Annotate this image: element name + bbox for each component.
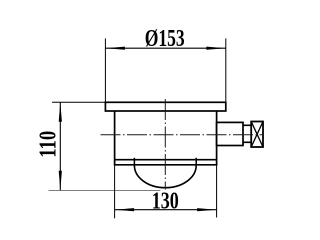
lens edge tick right xyxy=(195,158,197,166)
lens edge tick left xyxy=(133,158,135,166)
centerline horizontal axis xyxy=(101,134,264,136)
body bottom line xyxy=(114,164,218,166)
gland body box xyxy=(217,122,243,145)
gland nut box xyxy=(251,122,263,148)
dim 153 arrow left xyxy=(105,47,125,50)
dim 130 extension line left xyxy=(114,165,116,218)
body right wall xyxy=(216,111,218,165)
dim 110 arrow top xyxy=(59,102,62,122)
dim 110 dimension line xyxy=(59,102,61,190)
svg-text:Ø153: Ø153 xyxy=(145,26,185,52)
gland neck bottom line xyxy=(243,141,251,143)
dim 110 extension line bottom xyxy=(49,190,161,192)
svg-text:110: 110 xyxy=(36,131,62,158)
dim 130 arrow right xyxy=(197,208,217,211)
dim 153 arrow right xyxy=(206,47,226,50)
dim 153 extension line left xyxy=(104,38,106,102)
body left wall xyxy=(114,111,116,165)
dim 130 arrow left xyxy=(115,208,135,211)
gland neck top line xyxy=(243,124,251,126)
svg-text:130: 130 xyxy=(152,189,179,215)
centerline vertical axis xyxy=(164,99,166,190)
dim 110 extension line top xyxy=(52,101,105,103)
dim 153 extension line right xyxy=(225,38,227,102)
flange outline xyxy=(105,102,225,111)
dim 130 extension line right xyxy=(216,165,218,218)
bottom rim top line xyxy=(115,159,217,161)
dim 110 arrow bottom xyxy=(59,171,62,191)
gland nut diagonal 2 xyxy=(251,122,263,148)
gland nut diagonal 1 xyxy=(251,122,263,148)
dim 153 dimension line xyxy=(105,47,225,49)
glass dome arc xyxy=(134,165,196,187)
dim 130 dimension line xyxy=(115,209,217,211)
